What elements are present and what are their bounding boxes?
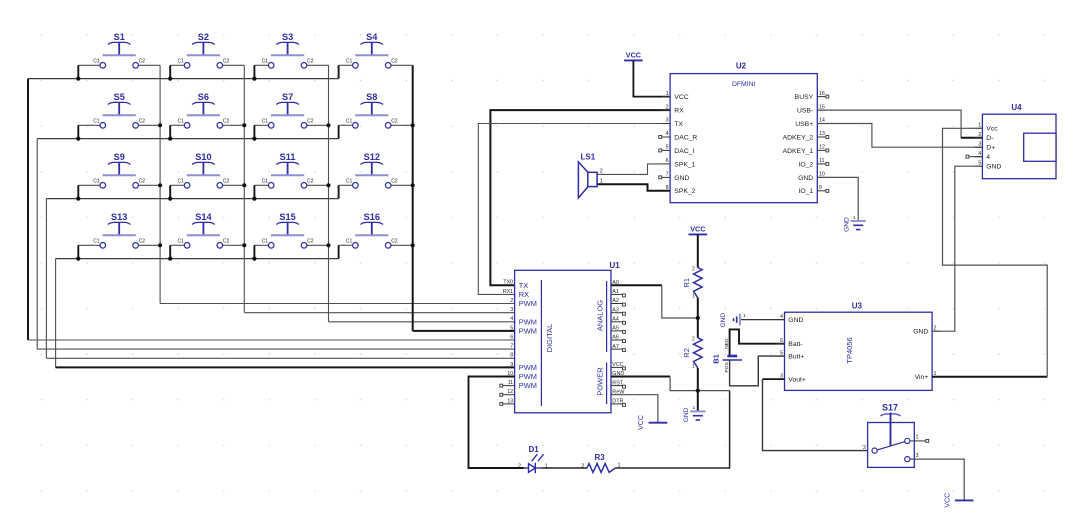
pushbutton S9 [93,152,145,188]
svg-text:A7: A7 [612,344,619,350]
svg-text:C1: C1 [93,178,100,184]
svg-text:PWM: PWM [519,317,537,326]
svg-text:S4: S4 [366,32,378,42]
svg-text:S5: S5 [114,92,125,102]
wire S16 C2 to column [391,244,413,246]
ground (near U2) [843,215,865,232]
wire S4 C2 to column [391,64,413,66]
wire VCC to R1 [697,234,699,267]
op-amp U3 TP4056 box [776,302,940,391]
svg-text:S8: S8 [366,92,377,102]
svg-text:S12: S12 [364,152,380,162]
wire S9 C2 to column [139,184,161,186]
svg-text:C2: C2 [391,178,398,184]
svg-text:6: 6 [666,158,669,164]
resistor R1 [682,266,702,299]
node S4 row junction [0,0,1,1]
svg-text:5: 5 [666,145,669,151]
wire S14 C2 to column [223,244,245,246]
node S9 row junction [76,183,162,201]
svg-text:IO_2: IO_2 [798,161,813,168]
battery B1 [711,338,742,372]
svg-text:C2: C2 [391,238,398,244]
power VCC (below S17) [945,493,974,508]
wire U2.RX to U1.TX0 [490,110,670,285]
svg-text:5: 5 [510,325,513,331]
svg-text:USB-: USB- [797,108,813,115]
svg-text:GND: GND [674,175,689,182]
svg-text:ADKEY_1: ADKEY_1 [783,148,814,155]
svg-text:C2: C2 [307,58,314,64]
svg-text:U2: U2 [736,62,747,71]
svg-text:4: 4 [510,316,513,322]
svg-text:TP4056: TP4056 [845,337,854,363]
svg-text:8: 8 [510,353,513,359]
svg-text:6: 6 [510,334,513,340]
U2 unconnected pin squares [659,95,829,192]
op-amp U2 DFMINI box [662,62,825,203]
svg-text:3: 3 [666,118,669,124]
svg-text:C1: C1 [346,238,353,244]
node S3 row junction [252,77,256,81]
svg-text:15: 15 [819,104,825,110]
svg-text:D1: D1 [529,445,540,454]
pushbutton S4 [346,32,398,68]
svg-text:C1: C1 [346,58,353,64]
wire row1 to U1 pin 6 [28,79,515,340]
svg-text:2: 2 [581,463,584,469]
wire S15 C2 to column [307,244,329,246]
svg-text:C1: C1 [177,238,184,244]
svg-text:1: 1 [916,435,919,441]
svg-text:A5: A5 [612,326,619,332]
op-amp U4 USB connector box [974,103,1056,179]
svg-text:C2: C2 [223,178,230,184]
switch S17 [863,403,919,468]
svg-text:TX0: TX0 [503,280,513,286]
ground (below R2) [683,405,705,422]
wire row4 bus [56,258,339,260]
svg-text:NEG: NEG [724,338,730,349]
svg-text:2: 2 [518,463,521,469]
svg-text:11: 11 [819,158,825,164]
pushbutton S11 [262,152,314,188]
svg-text:POS: POS [724,362,730,372]
svg-text:2: 2 [666,104,669,110]
node S11 row junction [252,183,330,201]
svg-text:RX: RX [519,290,529,299]
wire LS1 pin1 to U2.SPK_2 [597,184,670,191]
svg-text:5: 5 [780,351,783,357]
svg-text:GND: GND [798,175,813,182]
svg-text:4: 4 [666,131,669,137]
svg-text:10: 10 [819,172,825,178]
wire column4 to U1 pin 5 [413,65,515,331]
svg-text:PWM: PWM [519,299,537,308]
wire S7 C1 to row bus [254,125,268,138]
svg-text:U4: U4 [1011,103,1022,112]
node S1 row junction [76,77,80,81]
resistor R2 [682,337,702,370]
svg-text:C1: C1 [262,118,269,124]
wire S17 pin1 stub [910,439,928,442]
wire S2 C1 to row bus [170,65,184,78]
wire S17 pin3 to VCC [910,459,964,500]
svg-text:SPK_1: SPK_1 [674,161,695,168]
svg-text:DTR: DTR [612,399,623,405]
wire S16 C1 to row bus [339,245,353,258]
svg-text:GND: GND [788,317,803,324]
power VCC (above U2) [624,50,643,60]
svg-text:C1: C1 [93,238,100,244]
svg-text:1: 1 [692,364,695,370]
power VCC (below U1) [638,415,667,430]
svg-text:16: 16 [819,91,825,97]
wire VCC to U2 pin1 [633,60,670,96]
svg-text:Vout+: Vout+ [788,377,806,384]
svg-text:VCC: VCC [674,94,688,101]
svg-text:R1: R1 [682,278,691,288]
pushbutton S3 [262,32,314,68]
node GND junction [696,389,700,393]
wire S11 C1 to row bus [254,185,268,198]
wire S2 C2 to column [223,64,245,66]
wire S1 C2 to column [139,64,161,66]
svg-text:2: 2 [600,169,603,175]
wire row3 to U1 pin 8 [46,199,514,359]
svg-text:C1: C1 [262,178,269,184]
wire U1.GND net [611,377,730,391]
pushbutton S7 [262,92,314,128]
svg-text:C2: C2 [223,118,230,124]
svg-text:S1: S1 [114,32,125,42]
svg-text:14: 14 [819,118,825,124]
U4 pin4 unconnected square [966,155,982,158]
svg-text:C1: C1 [346,118,353,124]
svg-text:S16: S16 [364,212,380,222]
svg-text:S9: S9 [114,152,125,162]
svg-text:A4: A4 [612,317,619,323]
svg-text:Batt-: Batt- [788,341,802,348]
svg-text:12: 12 [819,145,825,151]
svg-text:S14: S14 [195,212,212,222]
wire row3 bus [46,198,338,200]
svg-text:ANALOG: ANALOG [595,300,604,331]
wire U1.ReW to VCC [622,395,658,423]
svg-text:3: 3 [978,142,981,148]
node S15 row junction [252,243,330,261]
pushbutton S2 [177,32,229,68]
svg-text:LS1: LS1 [581,153,596,162]
svg-text:A2: A2 [612,298,619,304]
svg-text:C1: C1 [346,178,353,184]
wire S13 C1 to row bus [78,245,100,258]
svg-text:VCC: VCC [690,224,705,233]
node S12 row junction [411,183,415,187]
svg-text:S15: S15 [279,212,295,222]
node S6 row junction [168,123,246,140]
wire U2.USB+ to U4.D+ [817,124,982,148]
svg-text:S11: S11 [280,152,296,162]
svg-text:S10: S10 [195,152,211,162]
wire S13 C2 to column [139,244,161,246]
wire R2 to ground [697,368,699,411]
svg-text:C1: C1 [177,58,184,64]
pushbutton S16 [346,212,398,248]
svg-text:B1: B1 [711,354,720,364]
svg-text:POWER: POWER [595,367,604,396]
wire S3 C1 to row bus [254,65,268,78]
svg-text:C2: C2 [307,238,314,244]
svg-text:DIGITAL: DIGITAL [545,324,554,353]
svg-text:2: 2 [692,266,695,272]
svg-text:GND: GND [683,407,690,422]
wire column2 to U1 pin 3 [244,65,514,312]
wire S6 C2 to column [223,124,245,126]
svg-text:U3: U3 [852,302,863,311]
wire S3 C2 to column [307,64,329,66]
svg-text:2: 2 [510,298,513,304]
svg-text:D+: D+ [986,145,995,152]
node S7 row junction [252,123,330,140]
svg-text:C1: C1 [93,118,100,124]
svg-text:ADKEY_2: ADKEY_2 [783,134,814,141]
pushbutton S12 [346,152,398,188]
wire S15 C1 to row bus [254,245,268,258]
svg-text:PWM: PWM [519,372,537,381]
svg-text:C2: C2 [139,178,146,184]
svg-text:C2: C2 [307,178,314,184]
svg-text:7: 7 [510,344,513,350]
node S14 row junction [168,243,246,261]
wire S10 C2 to column [223,184,245,186]
svg-text:Vin+: Vin+ [915,374,929,381]
wire S5 C2 to column [139,124,161,126]
wire LS1 pin2 to U2.SPK_1 [597,164,670,175]
pushbutton S5 [93,92,145,128]
resistor R3 [581,453,620,472]
svg-text:13: 13 [819,131,825,137]
svg-text:PWM: PWM [519,381,537,390]
svg-text:C1: C1 [93,58,100,64]
svg-text:C2: C2 [391,118,398,124]
ground (at U3 GND pin) [720,313,746,328]
wire R1 to R2 [697,298,699,338]
pushbutton S13 [93,212,145,248]
svg-text:9: 9 [510,362,513,368]
svg-text:6: 6 [780,338,783,344]
pushbutton S8 [346,92,398,128]
pushbutton S1 [93,32,145,68]
wire row2 to U1 pin 7 [37,139,514,350]
svg-text:DFMINI: DFMINI [732,81,756,88]
svg-text:1: 1 [692,294,695,300]
wire U2.USB- to U4.D- [817,110,982,138]
svg-text:1: 1 [743,313,746,319]
wire S4 C1 to row bus [339,65,353,78]
wire row4 to U1 pin 9 [56,259,515,368]
wire S5 C1 to row bus [78,125,100,138]
svg-text:PWM: PWM [519,363,537,372]
svg-text:S6: S6 [198,92,209,102]
svg-text:VCC: VCC [626,50,641,59]
wire U3.GND(2) to U4.GND [932,166,982,331]
wire S11 C2 to column [307,184,329,186]
svg-text:9: 9 [819,185,822,191]
wire S1 C1 to row bus [78,65,100,78]
node divider junction [696,316,700,320]
svg-text:2: 2 [978,132,981,138]
power VCC (above R1) [689,224,708,234]
U1 unconnected pin squares [500,294,626,406]
svg-text:7: 7 [666,172,669,178]
speaker LS1 [578,153,602,199]
wire S10 C1 to row bus [170,185,184,198]
svg-text:C1: C1 [262,238,269,244]
wire column3 to U1 pin 4 [329,65,515,322]
wire U2.TX to U1.RX1 [478,124,670,295]
svg-text:3: 3 [510,307,513,313]
svg-text:C2: C2 [223,58,230,64]
svg-text:VCC: VCC [638,415,645,430]
node S13 row junction [76,243,162,261]
node S16 row junction [411,243,415,247]
wire S8 C2 to column [391,124,413,126]
svg-text:3: 3 [916,453,919,459]
op-amp U1 MCU box [503,261,625,413]
wire S9 C1 to row bus [78,185,100,198]
svg-text:A6: A6 [612,335,619,341]
node S2 row junction [168,77,172,81]
svg-text:C2: C2 [307,118,314,124]
svg-text:R3: R3 [594,453,605,462]
wire ground to U3.GND [741,319,785,321]
svg-text:S2: S2 [198,32,209,42]
svg-text:VCC: VCC [945,493,952,508]
svg-text:A3: A3 [612,307,619,313]
wire U2.GND to ground [817,177,858,221]
wire S8 C1 to row bus [339,125,353,138]
wire row1 bus [28,78,339,80]
svg-text:DAC_R: DAC_R [674,134,697,141]
svg-text:GND: GND [913,329,928,336]
svg-text:S7: S7 [282,92,293,102]
svg-text:1: 1 [693,405,696,411]
wire R3 to GND net [615,391,729,468]
wire D1 to R3 [541,467,587,469]
svg-text:C2: C2 [223,238,230,244]
svg-text:RX: RX [674,108,684,115]
svg-text:TX: TX [674,121,683,128]
svg-text:SPK_2: SPK_2 [674,188,695,195]
svg-text:4: 4 [986,154,990,161]
svg-text:GND: GND [720,313,727,328]
svg-text:GND: GND [986,164,1001,171]
svg-text:RX1: RX1 [503,289,514,295]
svg-text:S17: S17 [882,403,898,413]
svg-text:C1: C1 [177,178,184,184]
wire column1 to U1 pin 2 [160,65,514,303]
svg-text:BUSY: BUSY [795,94,814,101]
svg-text:Vcc: Vcc [986,126,998,133]
svg-text:1: 1 [666,91,669,97]
svg-text:2: 2 [863,445,866,451]
pushbutton S10 [177,152,229,188]
svg-text:C2: C2 [139,118,146,124]
svg-text:D-: D- [986,135,993,142]
wire B1 NEG to U3.Batt- [730,329,785,356]
svg-text:C2: C2 [139,238,146,244]
wire S12 C2 to column [391,184,413,186]
svg-text:2: 2 [692,337,695,343]
wire U3.Vout+ to S17 pin2 [763,379,872,451]
wire S7 C2 to column [307,124,329,126]
node S8 row junction [411,123,415,127]
svg-text:R2: R2 [682,348,691,358]
svg-text:1: 1 [600,179,603,185]
svg-text:C1: C1 [262,58,269,64]
svg-text:Butt+: Butt+ [788,354,804,361]
svg-text:U1: U1 [610,261,621,270]
pushbutton S14 [177,212,229,248]
svg-text:C1: C1 [177,118,184,124]
svg-text:PWM: PWM [519,327,537,336]
node S5 row junction [76,123,162,140]
svg-text:1: 1 [853,215,856,221]
pushbutton S6 [177,92,229,128]
wire U1.A0 sense tap [611,285,698,318]
svg-text:S3: S3 [282,32,293,42]
svg-text:A1: A1 [612,289,619,295]
svg-text:C2: C2 [391,58,398,64]
diode D1 LED [518,445,548,473]
wire S6 C1 to row bus [170,125,184,138]
pushbutton S15 [262,212,314,248]
wire U1 pin10 to D1 [469,377,524,469]
svg-text:IO_1: IO_1 [798,188,813,195]
svg-text:4: 4 [780,314,783,320]
svg-text:S13: S13 [111,212,127,222]
node S10 row junction [168,183,246,201]
wire U3.Vin+ to U4.Vcc [932,128,1047,376]
wire B1 POS to U3.Butt+ [730,356,785,386]
svg-text:DAC_I: DAC_I [674,148,694,155]
svg-text:GND: GND [843,217,850,232]
svg-text:C2: C2 [139,58,146,64]
svg-text:USB+: USB+ [795,121,813,128]
svg-text:TX: TX [519,281,529,290]
wire row2 bus [37,138,338,140]
wire S14 C1 to row bus [170,245,184,258]
wire S12 C1 to row bus [339,185,353,198]
